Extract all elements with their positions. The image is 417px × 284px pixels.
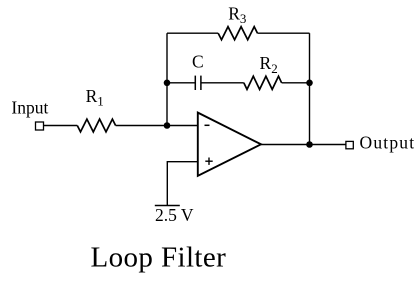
wire op-amp output bbox=[261, 144, 346, 146]
2.5 V rail bar bbox=[155, 205, 180, 207]
svg-text:C: C bbox=[192, 52, 204, 72]
op-amp minus sign bbox=[205, 124, 210, 126]
wire top-left segment to R3 bbox=[167, 32, 218, 34]
wire top-right segment R3 to right vertical bbox=[258, 32, 310, 34]
op-amp plus sign bbox=[205, 158, 212, 165]
node C junction dot (right end of C-R2 branch) bbox=[306, 80, 313, 87]
label R3 bbox=[228, 3, 246, 26]
label Input bbox=[11, 97, 48, 117]
output terminal square bbox=[346, 141, 353, 148]
svg-text:2.5 V: 2.5 V bbox=[155, 205, 194, 225]
node D junction dot (output node) bbox=[306, 141, 313, 148]
resistor R2 bbox=[244, 76, 282, 89]
label C bbox=[192, 52, 204, 72]
node A junction dot (inverting input node) bbox=[164, 122, 171, 129]
wire R1 to op-amp inverting input bbox=[116, 125, 198, 127]
svg-text:Output: Output bbox=[360, 132, 416, 152]
wire right vertical (output node up to feedback) bbox=[309, 33, 311, 144]
wire left vertical (node A up to feedback branches) bbox=[166, 33, 168, 125]
wire R2 to right vertical bbox=[282, 82, 310, 84]
title Loop Filter bbox=[91, 242, 227, 274]
label Output bbox=[360, 132, 416, 152]
label R1 bbox=[86, 86, 104, 109]
resistor R3 bbox=[218, 27, 257, 40]
svg-text:Loop Filter: Loop Filter bbox=[91, 242, 227, 274]
label 2.5 V bbox=[155, 205, 194, 225]
input terminal square bbox=[36, 122, 44, 130]
svg-text:Input: Input bbox=[11, 97, 48, 117]
capacitor C bbox=[195, 76, 201, 90]
op-amp U1 bbox=[198, 113, 261, 176]
label R2 bbox=[260, 53, 278, 76]
wire input to R1 bbox=[44, 125, 78, 127]
wire node B to capacitor C bbox=[167, 82, 195, 84]
node B junction dot (left end of C branch) bbox=[164, 80, 171, 87]
resistor R1 bbox=[77, 119, 115, 132]
wire capacitor to R2 bbox=[201, 82, 244, 84]
wire non-inverting input bbox=[167, 162, 198, 206]
